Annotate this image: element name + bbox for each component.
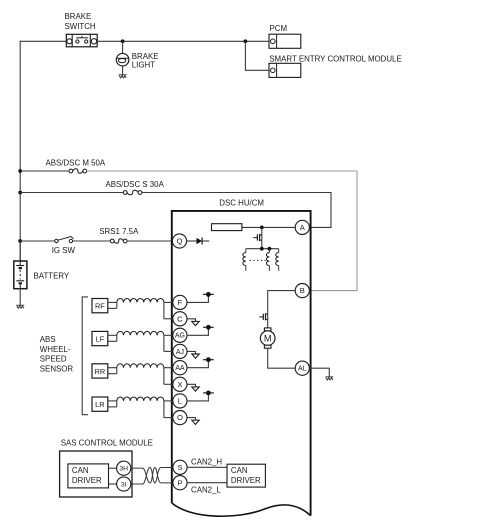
label ABS WHEEL-SPEED SENSOR — [40, 335, 74, 373]
wire: AL to ground — [309, 368, 329, 377]
svg-text:SRS1 7.5A: SRS1 7.5A — [99, 227, 139, 236]
svg-text:3I: 3I — [121, 481, 127, 488]
fuse SRS1 7.5A — [110, 239, 114, 243]
ground arrow at X — [192, 387, 199, 391]
coil: RR sensor winding — [117, 364, 164, 368]
fuse ABS/DSC S 30A — [123, 191, 127, 195]
diode D1 — [197, 238, 203, 245]
terminal P — [173, 476, 187, 490]
svg-text:DRIVER: DRIVER — [231, 476, 261, 485]
wheel speed sensor RR — [92, 364, 108, 378]
wire: resistor to terminal A — [242, 226, 296, 228]
resistor R1 — [212, 224, 242, 231]
wire: CAN driver to 3H — [109, 467, 117, 469]
svg-text:CAN: CAN — [231, 466, 248, 475]
wire: LF to terminals — [164, 335, 173, 351]
svg-text:PCM: PCM — [270, 24, 288, 33]
svg-text:BRAKE: BRAKE — [65, 12, 92, 21]
svg-text:3H: 3H — [119, 466, 128, 473]
svg-text:LF: LF — [96, 335, 105, 344]
motor M (pump) — [260, 328, 275, 348]
wire: AG to power feed — [187, 327, 209, 335]
coil: LF sensor winding — [117, 331, 164, 335]
SAS control module box — [60, 451, 132, 497]
wire: B to pump motor — [268, 291, 296, 314]
coil: LR sensor winding — [117, 397, 164, 401]
wire: 30A fuse to DSC terminal A — [142, 193, 331, 228]
svg-text:SPEED: SPEED — [40, 355, 67, 364]
wire: RF sensor leads — [108, 302, 117, 308]
smart entry connector box — [269, 63, 301, 77]
ground: AL — [325, 377, 333, 380]
wire: F to power feed — [187, 294, 209, 302]
svg-text:S: S — [177, 463, 182, 472]
wire: CAN driver to 3I — [109, 483, 117, 485]
wire: down to transistor — [261, 227, 263, 248]
terminal AJ — [173, 344, 187, 358]
bracket for sensor group — [82, 297, 88, 415]
brake light bulb E — [116, 53, 129, 66]
svg-text:BATTERY: BATTERY — [34, 272, 70, 281]
terminal F — [173, 295, 187, 309]
node: solenoid junction 1 — [260, 247, 264, 251]
ground: brake light — [119, 75, 127, 78]
wire: brake light to ground — [122, 66, 124, 75]
PCM connector box — [269, 34, 301, 48]
wire: solenoid bus — [246, 248, 279, 250]
terminal B — [295, 284, 309, 298]
wire: X ground stub — [187, 384, 196, 387]
svg-text:AJ: AJ — [176, 349, 184, 356]
ground: battery — [16, 305, 24, 308]
terminal S — [173, 460, 187, 474]
svg-text:C: C — [177, 314, 183, 323]
CAN driver (DSC side) — [227, 464, 265, 487]
node: IG SW branch — [18, 239, 22, 243]
svg-text:ABS: ABS — [40, 335, 56, 344]
label BRAKE LIGHT — [132, 52, 159, 70]
twisted pair CAN wires — [131, 468, 174, 485]
CAN driver (SAS side) — [68, 464, 109, 488]
node: brake light junction — [121, 39, 125, 43]
wire: branch down to smart entry module — [245, 41, 269, 70]
svg-text:RR: RR — [95, 367, 106, 376]
wire: motor to AL — [268, 348, 296, 368]
solenoid coil L1 — [245, 249, 247, 253]
svg-text:SAS CONTROL MODULE: SAS CONTROL MODULE — [61, 438, 153, 447]
ground arrow at C — [192, 321, 199, 325]
wheel speed sensor RF — [92, 299, 108, 313]
terminal L — [173, 394, 187, 408]
ground arrow at AJ — [192, 354, 199, 358]
terminal AA — [173, 361, 187, 375]
node: solenoid junction 2 — [268, 247, 272, 251]
wire: bus to fuse 50A — [20, 170, 69, 172]
svg-text:CAN: CAN — [72, 466, 89, 475]
wheel speed sensor LR — [92, 397, 108, 411]
power feed at AG — [203, 326, 214, 328]
wire: bus to IG switch — [20, 240, 55, 242]
power feed at L — [203, 392, 214, 394]
wire: 50A fuse to DSC terminal B (light gray) — [87, 171, 357, 291]
svg-text:CAN2_L: CAN2_L — [191, 485, 221, 494]
wheel speed sensor LF — [92, 331, 108, 345]
wire: battery to ground — [19, 289, 21, 306]
wire: Q to diode — [186, 240, 196, 242]
terminal Q — [172, 234, 186, 248]
terminal A — [295, 220, 309, 234]
wire: IG switch to SRS1 fuse — [73, 240, 111, 242]
wire: brake switch to PCM — [97, 40, 269, 42]
svg-text:LR: LR — [95, 400, 104, 409]
svg-text:DRIVER: DRIVER — [72, 476, 102, 485]
wire: transistor to motor — [267, 314, 269, 329]
svg-text:BRAKE: BRAKE — [132, 52, 159, 61]
wire: RF to terminals — [164, 302, 173, 318]
brake switch SW1 — [66, 34, 97, 47]
wire: C ground stub — [187, 319, 196, 322]
wire: SRS1 fuse to DSC terminal Q — [127, 240, 172, 242]
dotted link between solenoids — [250, 259, 266, 261]
svg-text:P: P — [177, 478, 182, 487]
solenoid coil L3 — [278, 249, 280, 253]
svg-text:AL: AL — [298, 366, 307, 373]
wire: RR to terminals — [164, 368, 173, 385]
terminal O — [173, 411, 187, 425]
label BRAKE SWITCH — [65, 12, 96, 31]
terminal C — [173, 312, 187, 326]
wire: LR sensor leads — [108, 401, 117, 407]
svg-text:IG SW: IG SW — [52, 246, 76, 255]
wire: P to CAN driver (net CAN2_L) — [187, 482, 227, 484]
svg-text:WHEEL-: WHEEL- — [40, 345, 71, 354]
node: 50A fuse branch — [18, 169, 22, 173]
power feed at F — [203, 293, 214, 295]
wire: AA to power feed — [187, 360, 209, 368]
solenoid coil L2 — [268, 249, 270, 253]
svg-text:B: B — [300, 286, 305, 295]
wire: LF sensor leads — [108, 335, 117, 341]
svg-text:RF: RF — [95, 302, 105, 311]
svg-text:LIGHT: LIGHT — [132, 61, 155, 70]
wire: bus to battery — [19, 241, 21, 261]
power feed at AA — [203, 359, 214, 361]
svg-text:DSC HU/CM: DSC HU/CM — [219, 198, 264, 207]
svg-text:ABS/DSC S 30A: ABS/DSC S 30A — [106, 180, 165, 189]
svg-text:Q: Q — [177, 237, 183, 246]
wire: diode stub — [202, 240, 209, 242]
wire: S to CAN driver (net CAN2_H) — [187, 466, 227, 468]
svg-text:M: M — [264, 333, 272, 343]
wire: main battery bus (vertical) — [19, 41, 21, 261]
terminal AG — [173, 328, 187, 342]
svg-text:F: F — [178, 298, 183, 307]
wire: L to power feed — [187, 393, 209, 401]
ground arrow at O — [192, 420, 199, 424]
wire: LR to terminals — [164, 401, 173, 418]
svg-text:AA: AA — [175, 365, 185, 372]
wire: battery bus to brake switch — [20, 40, 67, 42]
svg-text:AG: AG — [175, 333, 185, 340]
coil: RF sensor winding — [117, 298, 164, 302]
transistor Q2 (FET) — [259, 313, 268, 320]
svg-text:SMART ENTRY CONTROL MODULE: SMART ENTRY CONTROL MODULE — [269, 55, 401, 64]
terminal 3I — [117, 477, 131, 491]
wire: RR sensor leads — [108, 368, 117, 374]
node: pump transistor tap — [260, 226, 264, 230]
wire: AJ ground stub — [187, 351, 196, 354]
fuse ABS/DSC M 50A — [69, 169, 73, 173]
svg-text:CAN2_H: CAN2_H — [191, 457, 222, 466]
DSC HU/CM module outline — [172, 211, 311, 516]
terminal X — [173, 377, 187, 391]
svg-text:ABS/DSC M 50A: ABS/DSC M 50A — [46, 158, 106, 167]
wire: O ground stub — [187, 418, 196, 421]
switch IG SW — [55, 237, 74, 243]
node: PCM branch junction — [244, 39, 248, 43]
wire: bus to fuse 30A — [20, 192, 123, 194]
wire: drop to brake light — [122, 41, 124, 53]
terminal AL — [295, 361, 309, 375]
node: 30A fuse branch — [18, 191, 22, 195]
battery BATT — [14, 261, 27, 289]
svg-text:SWITCH: SWITCH — [65, 22, 96, 31]
svg-text:X: X — [177, 380, 182, 389]
svg-text:L: L — [178, 396, 182, 405]
transistor Q1 (FET) — [253, 234, 261, 241]
terminal 3H — [117, 461, 131, 475]
svg-text:SENSOR: SENSOR — [40, 364, 74, 373]
svg-text:O: O — [177, 413, 183, 422]
